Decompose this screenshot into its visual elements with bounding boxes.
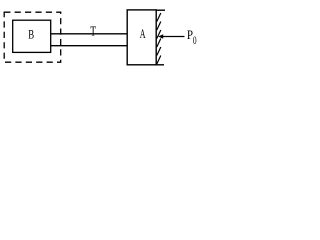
block B box [13,20,51,52]
P0 arrowhead [158,34,163,38]
svg-text:0: 0 [193,34,197,47]
wall bottom cap [156,64,164,66]
dashed enclosure box around B [4,12,61,62]
rod upper line [51,33,128,35]
wall hatching [157,13,161,64]
block A box [127,10,156,65]
svg-text:B: B [28,28,34,42]
rod lower line [51,45,128,47]
svg-text:T: T [90,22,96,38]
P0 force arrow shaft [160,36,185,38]
svg-text:A: A [140,27,146,41]
wall top cap [156,9,165,11]
